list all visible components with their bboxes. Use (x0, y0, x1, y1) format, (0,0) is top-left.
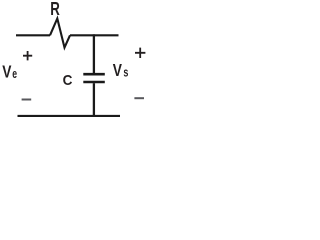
wire capacitor bottom lead (93, 83, 95, 116)
plus sign left (Ve +) (23, 51, 32, 60)
svg-text:V: V (2, 62, 11, 82)
svg-text:s: s (123, 65, 128, 79)
resistor R (zigzag) (50, 19, 70, 48)
wire capacitor top lead (93, 34, 95, 73)
minus sign right (Vs -) (134, 97, 144, 99)
svg-text:R: R (50, 0, 60, 19)
capacitor C top plate (83, 73, 105, 76)
minus sign left (Ve -) (22, 99, 32, 101)
svg-text:V: V (113, 60, 122, 80)
capacitor C bottom plate (83, 81, 105, 84)
wire bottom (Ve- to Vs-) (18, 115, 121, 117)
wire top-left (Ve+ to resistor) (16, 34, 50, 36)
svg-text:C: C (63, 72, 73, 89)
svg-text:e: e (12, 67, 17, 81)
plus sign right (Vs +) (135, 48, 145, 58)
wire top-right (resistor to Vs+) (70, 34, 119, 36)
